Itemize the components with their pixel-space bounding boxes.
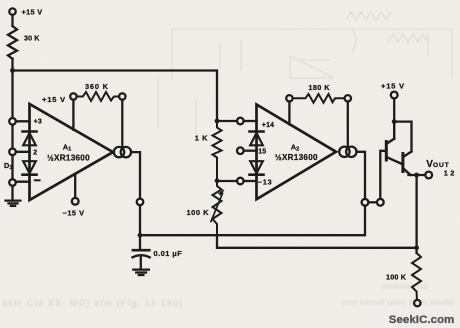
svg-text:+3: +3	[34, 119, 42, 126]
svg-text:½XR13600: ½XR13600	[47, 153, 90, 162]
node VOUT	[414, 173, 419, 178]
pin 2 terminal A1	[9, 149, 16, 156]
wire VOUT down	[415, 175, 417, 253]
svg-text:2: 2	[33, 149, 37, 156]
wire	[11, 59, 13, 71]
terminal +15V A1	[70, 93, 76, 99]
resistor 100K variable	[213, 181, 222, 236]
diode A2b cathode bar	[250, 173, 264, 176]
node: 30K bottom junction	[10, 68, 15, 73]
ghost bleed-through rectangle top right	[158, 29, 452, 134]
output mirror symbol A1	[114, 147, 124, 157]
terminal VOUT	[425, 172, 432, 179]
ground symbol cap	[133, 270, 149, 275]
ghost bleed-through zigzags top right	[346, 12, 428, 56]
terminal 100K bottom	[414, 300, 420, 306]
wire pin3 to diodes	[16, 120, 30, 122]
wire -15V stub A1	[74, 174, 76, 198]
node lower junction	[414, 245, 419, 250]
svg-text:1 K: 1 K	[195, 134, 208, 143]
svg-text:12: 12	[444, 168, 457, 177]
potentiometer arrow	[211, 194, 223, 222]
diode D1b	[23, 161, 36, 173]
terminal +15V top-left	[9, 8, 15, 14]
minus label A1	[35, 179, 40, 181]
wire to pin13	[217, 180, 237, 182]
ghost bleed-through triangle shape	[290, 56, 334, 78]
wire A1 output	[131, 152, 140, 199]
svg-text:+14: +14	[262, 122, 274, 129]
node collector junction	[392, 119, 397, 124]
wire pin15 to diodes A2	[244, 150, 257, 152]
transistor Q2	[403, 152, 412, 175]
svg-text:15: 15	[258, 149, 266, 156]
svg-text:360 K: 360 K	[85, 82, 109, 91]
wire pin4 to A1	[16, 181, 30, 183]
terminal A1 output pin	[137, 199, 144, 206]
node cap junction	[138, 233, 143, 238]
svg-text:SeekIC.com: SeekIC.com	[389, 314, 455, 326]
wire collector link to Q2	[394, 122, 411, 152]
wire	[11, 155, 13, 179]
wire top bus to 1K	[13, 71, 218, 122]
wire emitter to VOUT	[409, 174, 426, 176]
wire cap to ground	[140, 258, 142, 270]
svg-text:100 K: 100 K	[386, 272, 407, 281]
terminal +15V transistor	[391, 92, 398, 99]
terminal buffer pin left	[362, 199, 369, 206]
wire A2 output	[357, 152, 366, 199]
resistor 100K output	[412, 253, 421, 300]
capacitor C1 bottom plate	[133, 255, 150, 257]
wire left bus down	[11, 71, 13, 119]
wire to pin14	[217, 120, 237, 122]
svg-text:−15 V: −15 V	[63, 209, 85, 218]
wire buffer input up	[380, 151, 386, 199]
wire lower route	[217, 235, 417, 248]
svg-text:30 K: 30 K	[24, 34, 40, 42]
diode A2a cathode bar	[250, 130, 264, 133]
output mirror symbol A2	[339, 147, 349, 157]
wire bias to A2 mirror	[347, 102, 349, 147]
svg-text:−13: −13	[258, 178, 273, 186]
terminal 180K right	[345, 95, 351, 101]
diode D1a cathode bar	[23, 130, 37, 133]
pin 3 terminal A1	[9, 118, 16, 125]
diode D1a	[23, 133, 36, 145]
terminal buffer pin right	[377, 199, 384, 206]
svg-text:+15 V: +15 V	[42, 95, 66, 104]
wire to ground	[11, 186, 13, 201]
wire output pin down	[139, 205, 141, 249]
op-amp A1 triangle	[30, 104, 114, 200]
wire V+ into A2	[288, 102, 290, 125]
resistor 30K	[8, 26, 17, 59]
wire feedback upper	[140, 206, 365, 236]
pin 14 terminal A2	[237, 118, 244, 125]
svg-text:astr Cte XS- MO) elm (Fig. 11-: astr Cte XS- MO) elm (Fig. 11-18b)	[2, 298, 184, 308]
resistor 1K	[213, 121, 222, 181]
terminal 360K right	[119, 93, 125, 99]
svg-text:½XR13600: ½XR13600	[275, 153, 318, 162]
wire	[11, 15, 13, 26]
svg-text:180 K: 180 K	[308, 83, 330, 92]
wire pin13 to A2	[244, 180, 257, 182]
pin 15 terminal A2	[237, 147, 244, 154]
terminal 180K left	[286, 95, 292, 101]
svg-text:multimodul: multimodul	[382, 281, 428, 291]
svg-text:0.01 µF: 0.01 µF	[154, 249, 183, 258]
resistor 180K	[293, 94, 345, 103]
pin 4 terminal A1	[9, 179, 16, 186]
wire pin link	[368, 201, 377, 203]
pin 13 terminal A2	[237, 178, 244, 185]
diode A2b	[250, 161, 263, 173]
capacitor C1 top plate	[133, 249, 149, 252]
svg-text:+15 V: +15 V	[381, 81, 405, 90]
node 1K top	[215, 119, 220, 124]
ground symbol A1 input	[6, 201, 21, 206]
terminal -15V A1	[72, 198, 79, 205]
wire	[11, 125, 13, 149]
svg-text:ons circuit uses both sectio: ons circuit uses both sectio	[342, 297, 454, 307]
wire pin14 to diodes A2	[244, 120, 257, 122]
diode D1b cathode bar	[23, 173, 37, 176]
node 1K bottom	[215, 178, 220, 183]
svg-text:100 K: 100 K	[187, 208, 210, 217]
wire bias to output mirror	[121, 100, 123, 147]
wire V+ into A1	[72, 100, 74, 130]
wire	[393, 98, 395, 121]
wire pin2 to diodes	[16, 151, 30, 153]
resistor 360K	[77, 92, 120, 101]
transistor Q1	[386, 122, 403, 165]
diode A2a	[250, 133, 263, 145]
op-amp A2 triangle	[257, 105, 337, 200]
svg-text:+15 V: +15 V	[22, 8, 43, 17]
